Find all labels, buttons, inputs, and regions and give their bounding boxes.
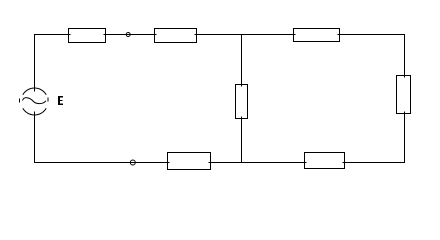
label E (source name) — [58, 96, 63, 105]
wire middle branch: junction T1 down to R4 — [241, 35, 243, 87]
node A (top terminal circle) — [126, 33, 130, 37]
wire top segment: R3 to right corner — [338, 34, 406, 36]
source E left terminal tick — [19, 99, 21, 103]
wire top segment: left corner to R1 — [34, 34, 71, 36]
wire left segment: source E down to bottom corner — [34, 112, 36, 163]
resistor R6 (bottom left) — [168, 153, 211, 170]
wire bottom segment: left corner to R6 through node B — [34, 162, 170, 164]
wire right segment: top corner down to R5 — [404, 35, 406, 78]
wire top segment: R2 to R3 through junction T1 — [195, 34, 296, 36]
wire right segment: R5 down to bottom corner — [404, 112, 406, 163]
resistor R2 (top middle) — [155, 29, 197, 43]
resistor R5 (right vertical) — [397, 76, 411, 114]
resistor R1 (top left) — [69, 29, 106, 43]
wire bottom segment: R7 to right corner — [343, 162, 406, 164]
wire top segment: R1 to R2 through node A — [104, 34, 157, 36]
resistor R4 (middle vertical) — [236, 85, 248, 119]
source E circle top arc — [23, 88, 46, 95]
node B (bottom terminal circle) — [130, 160, 135, 165]
source E sine wave — [23, 98, 47, 104]
wire left segment: top corner down to source E — [34, 35, 36, 92]
wire middle branch: R4 down to junction T2 — [241, 117, 243, 163]
resistor R3 (top right) — [294, 29, 340, 42]
resistor R7 (bottom right) — [305, 153, 345, 169]
source E right terminal tick — [47, 98, 49, 102]
wire bottom segment: R6 to R7 through junction T2 — [209, 162, 307, 164]
source E circle bottom arc — [23, 108, 46, 115]
